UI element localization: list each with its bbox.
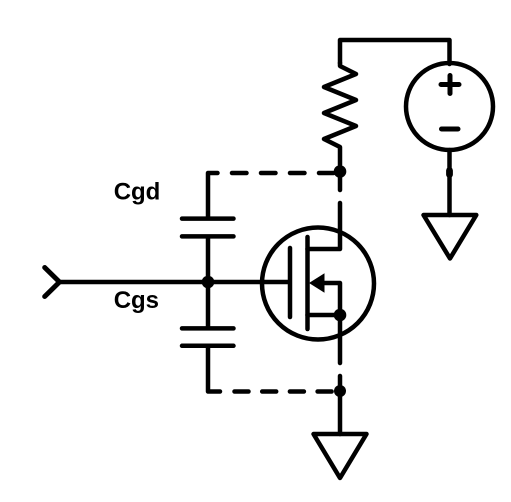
MOSFET M1 body circle — [262, 228, 374, 340]
wire drain node to MOSFET drain — [308, 172, 341, 250]
wire V1 to ground — [447, 150, 452, 215]
capacitor Cgs bottom lead with corner stub — [208, 348, 220, 392]
input terminal — [45, 268, 60, 297]
ground (right) — [424, 215, 477, 259]
ground (bottom) — [314, 434, 367, 478]
node gate (junction dot) — [202, 276, 215, 289]
capacitor Cgs top lead — [206, 282, 211, 326]
M1 channel bar — [305, 237, 310, 329]
wire joint bump — [446, 171, 453, 175]
node source (junction dot on M1) — [334, 309, 347, 322]
capacitor Cgd plates — [182, 219, 234, 237]
dashed wire Cgd to drain node — [232, 171, 340, 176]
capacitor Cgd bottom lead — [206, 239, 211, 283]
wire gate — [60, 280, 289, 285]
capacitor Cgd top lead with corner stub — [208, 173, 218, 216]
wire top rail — [340, 40, 450, 64]
svg-text:Cgd: Cgd — [114, 179, 161, 206]
V1 plus sign — [441, 76, 459, 94]
wire source down — [338, 315, 343, 434]
M1 body arrow head — [309, 273, 325, 292]
capacitor Cgs plates — [182, 328, 234, 345]
resistor R1 — [324, 63, 356, 171]
node source-net (junction dot) — [334, 385, 346, 397]
M1 source connection — [308, 313, 341, 318]
V1 minus sign — [442, 127, 459, 132]
node drain (junction dot) — [334, 165, 347, 178]
voltage source V1 — [406, 63, 493, 150]
dashed wire Cgs to source node — [235, 389, 341, 394]
M1 body terminal wire — [324, 283, 340, 315]
M1 gate bar — [288, 248, 293, 317]
svg-text:Cgs: Cgs — [114, 287, 159, 314]
